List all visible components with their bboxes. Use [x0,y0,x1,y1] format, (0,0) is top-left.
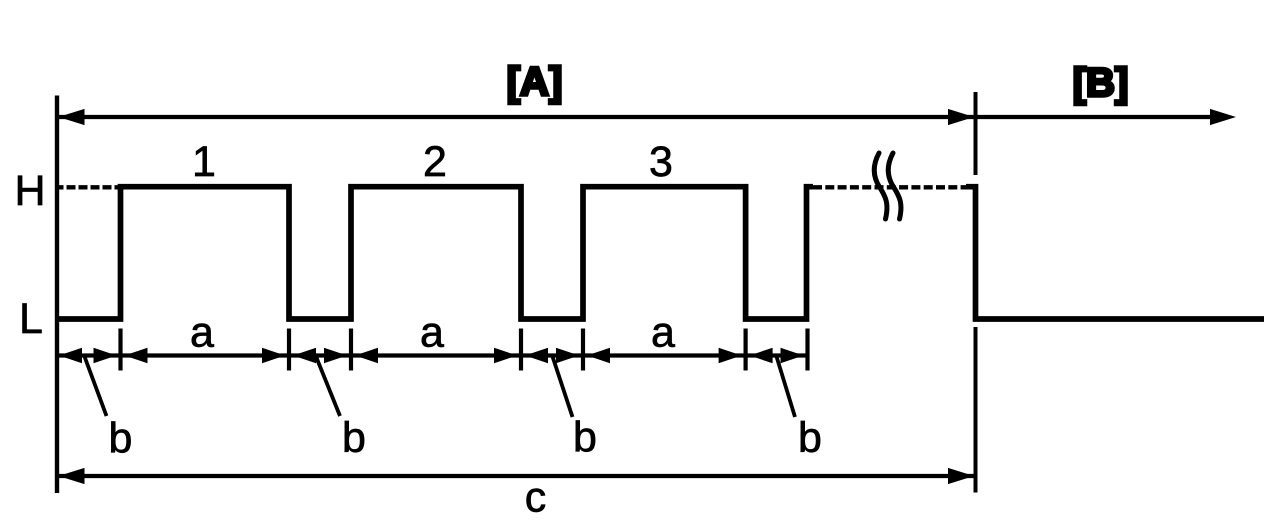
svg-text:b: b [342,414,366,462]
svg-text:c: c [525,474,547,522]
svg-text:H: H [14,167,45,215]
svg-text:a: a [190,309,214,357]
svg-text:L: L [19,295,43,343]
svg-text:2: 2 [423,138,447,186]
svg-text:a: a [420,309,444,357]
svg-text:[B]: [B] [1073,61,1129,105]
svg-text:b: b [798,414,822,462]
svg-text:a: a [651,309,675,357]
svg-text:[A]: [A] [507,60,563,104]
svg-text:b: b [109,415,133,463]
svg-text:1: 1 [192,138,216,186]
svg-text:b: b [573,414,597,462]
svg-text:3: 3 [649,138,673,186]
